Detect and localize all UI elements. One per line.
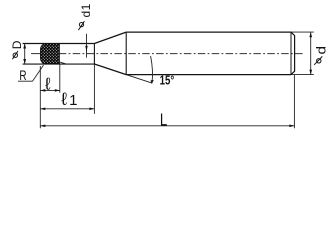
wire shank bottom bbox=[126, 74, 291, 76]
wire shank top bbox=[126, 31, 291, 33]
wire taper bottom bbox=[94, 64, 126, 75]
wire left extension for dims bbox=[39, 66, 41, 128]
wire shank top extension right bbox=[291, 31, 314, 33]
wire top profile line with D extension bbox=[23, 43, 95, 45]
wire extension ell1 right bbox=[93, 64, 95, 114]
angle arc bbox=[151, 56, 153, 83]
svg-text:d1: d1 bbox=[79, 3, 93, 17]
wire shank bottom extension right bbox=[291, 74, 314, 76]
wire taper bottom extension for angle bbox=[126, 75, 151, 83]
svg-text:L: L bbox=[160, 109, 168, 129]
wire bottom profile line with D extension bbox=[23, 63, 95, 65]
node taper start junction bbox=[93, 44, 95, 65]
svg-text:ℓ: ℓ bbox=[44, 74, 51, 93]
svg-text:15°: 15° bbox=[160, 74, 175, 88]
dimension d line right bbox=[310, 32, 312, 74]
wire ell right extension bbox=[59, 64, 61, 93]
node chamfer behind head bbox=[59, 62, 66, 64]
label phi d bbox=[314, 56, 322, 64]
wire d1 leader bbox=[86, 34, 88, 58]
wire R underline and leader bbox=[18, 65, 44, 81]
dimension ell line bbox=[40, 89, 60, 91]
node shank right end chamfered face bbox=[291, 32, 295, 75]
dimension ell1 line bbox=[40, 108, 94, 110]
svg-text:D: D bbox=[10, 40, 24, 49]
dimension D line bbox=[24, 44, 26, 65]
dimension L line bbox=[40, 125, 294, 127]
node chamfer ring line bbox=[290, 32, 292, 75]
node shank junction line bbox=[125, 32, 127, 75]
wire taper top bbox=[94, 32, 126, 43]
svg-text:R: R bbox=[19, 68, 26, 83]
svg-text:ℓ1: ℓ1 bbox=[61, 89, 77, 109]
centerline bbox=[31, 53, 41, 55]
wire L right extension bbox=[293, 75, 295, 129]
label phi d1 bbox=[78, 21, 84, 30]
svg-text:d: d bbox=[315, 46, 329, 55]
diamond head blob bbox=[41, 44, 60, 64]
label phi D bbox=[12, 51, 18, 59]
